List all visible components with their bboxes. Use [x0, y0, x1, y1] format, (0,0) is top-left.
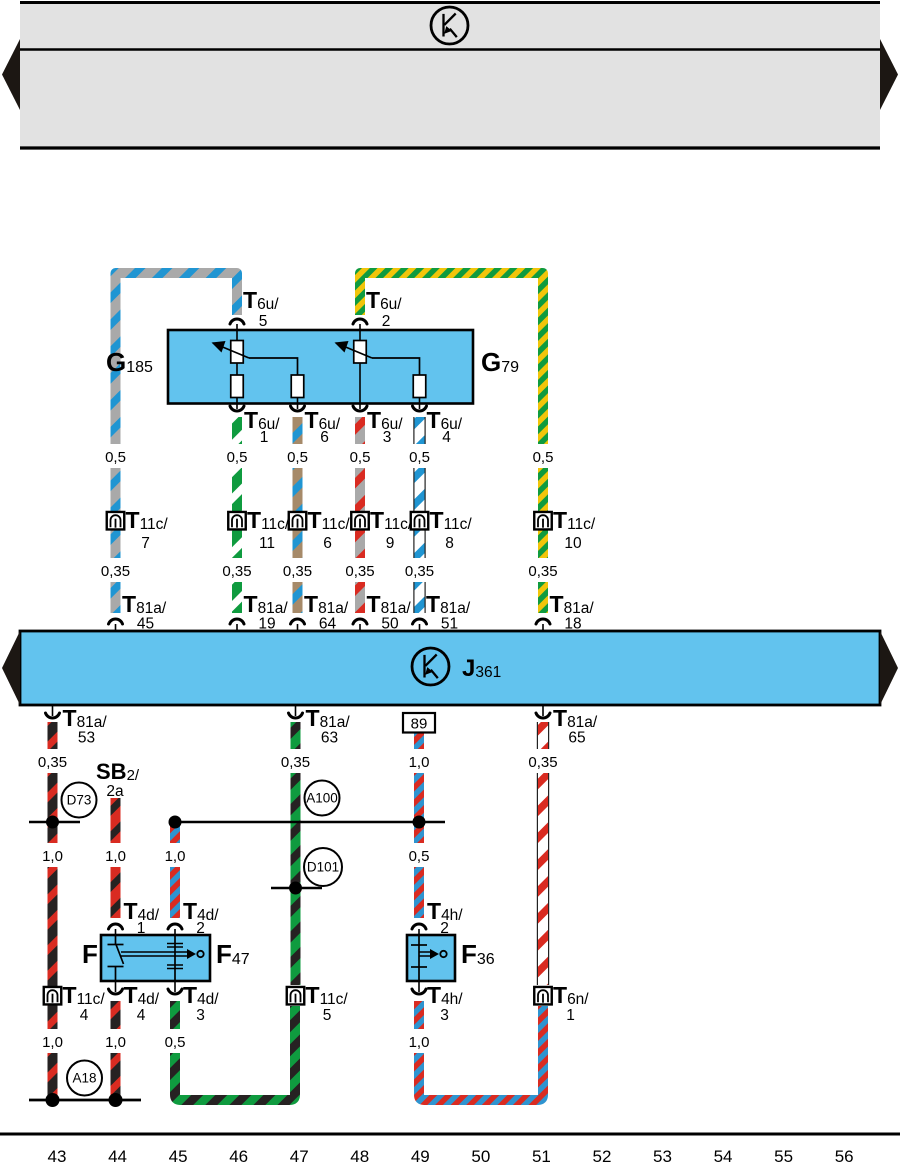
svg-text:D73: D73	[67, 793, 92, 808]
svg-text:0,35: 0,35	[101, 563, 130, 580]
svg-text:4: 4	[137, 1007, 146, 1024]
svg-text:0,35: 0,35	[345, 563, 374, 580]
svg-text:6: 6	[323, 535, 332, 552]
svg-text:1: 1	[566, 1007, 575, 1024]
svg-text:0,5: 0,5	[287, 449, 308, 466]
svg-text:64: 64	[319, 616, 337, 633]
svg-text:48: 48	[350, 1147, 369, 1166]
svg-text:0,5: 0,5	[409, 848, 430, 865]
svg-text:A100: A100	[306, 791, 338, 806]
svg-text:3: 3	[196, 1007, 205, 1024]
svg-text:1: 1	[137, 920, 146, 937]
svg-text:44: 44	[108, 1147, 127, 1166]
svg-text:2: 2	[440, 920, 449, 937]
svg-text:1,0: 1,0	[165, 848, 186, 865]
svg-text:3: 3	[383, 429, 392, 446]
svg-text:56: 56	[835, 1147, 854, 1166]
svg-text:51: 51	[441, 616, 458, 633]
svg-text:1,0: 1,0	[42, 848, 63, 865]
svg-text:0,35: 0,35	[38, 754, 67, 771]
svg-text:54: 54	[714, 1147, 733, 1166]
svg-text:0,35: 0,35	[528, 754, 557, 771]
svg-text:1: 1	[260, 429, 269, 446]
svg-text:45: 45	[137, 616, 154, 633]
svg-text:49: 49	[411, 1147, 430, 1166]
svg-text:51: 51	[532, 1147, 551, 1166]
svg-text:52: 52	[592, 1147, 611, 1166]
svg-text:A18: A18	[72, 1071, 96, 1086]
svg-text:4: 4	[80, 1007, 89, 1024]
svg-text:0,35: 0,35	[222, 563, 251, 580]
svg-text:53: 53	[78, 730, 95, 747]
svg-text:65: 65	[568, 730, 585, 747]
svg-text:0,35: 0,35	[283, 563, 312, 580]
svg-text:0,5: 0,5	[350, 449, 371, 466]
svg-text:0,5: 0,5	[533, 449, 554, 466]
svg-text:0,35: 0,35	[281, 754, 310, 771]
svg-text:9: 9	[386, 535, 395, 552]
svg-text:0,35: 0,35	[528, 563, 557, 580]
svg-text:0,5: 0,5	[105, 449, 126, 466]
svg-text:50: 50	[471, 1147, 490, 1166]
svg-text:1,0: 1,0	[105, 1034, 126, 1051]
svg-text:19: 19	[258, 616, 275, 633]
svg-text:18: 18	[564, 616, 581, 633]
svg-text:89: 89	[411, 716, 428, 733]
svg-text:4: 4	[442, 429, 451, 446]
svg-text:11: 11	[259, 535, 275, 552]
svg-text:55: 55	[774, 1147, 793, 1166]
svg-text:50: 50	[381, 616, 399, 633]
svg-text:2a: 2a	[106, 783, 124, 800]
svg-text:2: 2	[382, 313, 391, 330]
svg-text:5: 5	[259, 313, 268, 330]
svg-text:3: 3	[440, 1007, 449, 1024]
svg-text:43: 43	[48, 1147, 67, 1166]
svg-text:46: 46	[229, 1147, 248, 1166]
svg-text:1,0: 1,0	[42, 1034, 63, 1051]
svg-text:7: 7	[141, 535, 150, 552]
svg-text:1,0: 1,0	[409, 754, 430, 771]
svg-text:1,0: 1,0	[409, 1034, 430, 1051]
svg-text:45: 45	[169, 1147, 188, 1166]
svg-text:1,0: 1,0	[105, 848, 126, 865]
svg-text:5: 5	[323, 1007, 332, 1024]
svg-text:53: 53	[653, 1147, 672, 1166]
svg-text:F: F	[82, 939, 98, 969]
svg-text:D101: D101	[307, 860, 339, 875]
svg-text:2: 2	[196, 920, 205, 937]
svg-text:0,5: 0,5	[165, 1034, 186, 1051]
svg-text:10: 10	[564, 535, 582, 552]
svg-text:63: 63	[321, 730, 338, 747]
svg-text:0,5: 0,5	[227, 449, 248, 466]
svg-text:6: 6	[320, 429, 329, 446]
svg-text:8: 8	[445, 535, 454, 552]
svg-text:0,35: 0,35	[405, 563, 434, 580]
svg-text:47: 47	[290, 1147, 309, 1166]
svg-text:0,5: 0,5	[409, 449, 430, 466]
